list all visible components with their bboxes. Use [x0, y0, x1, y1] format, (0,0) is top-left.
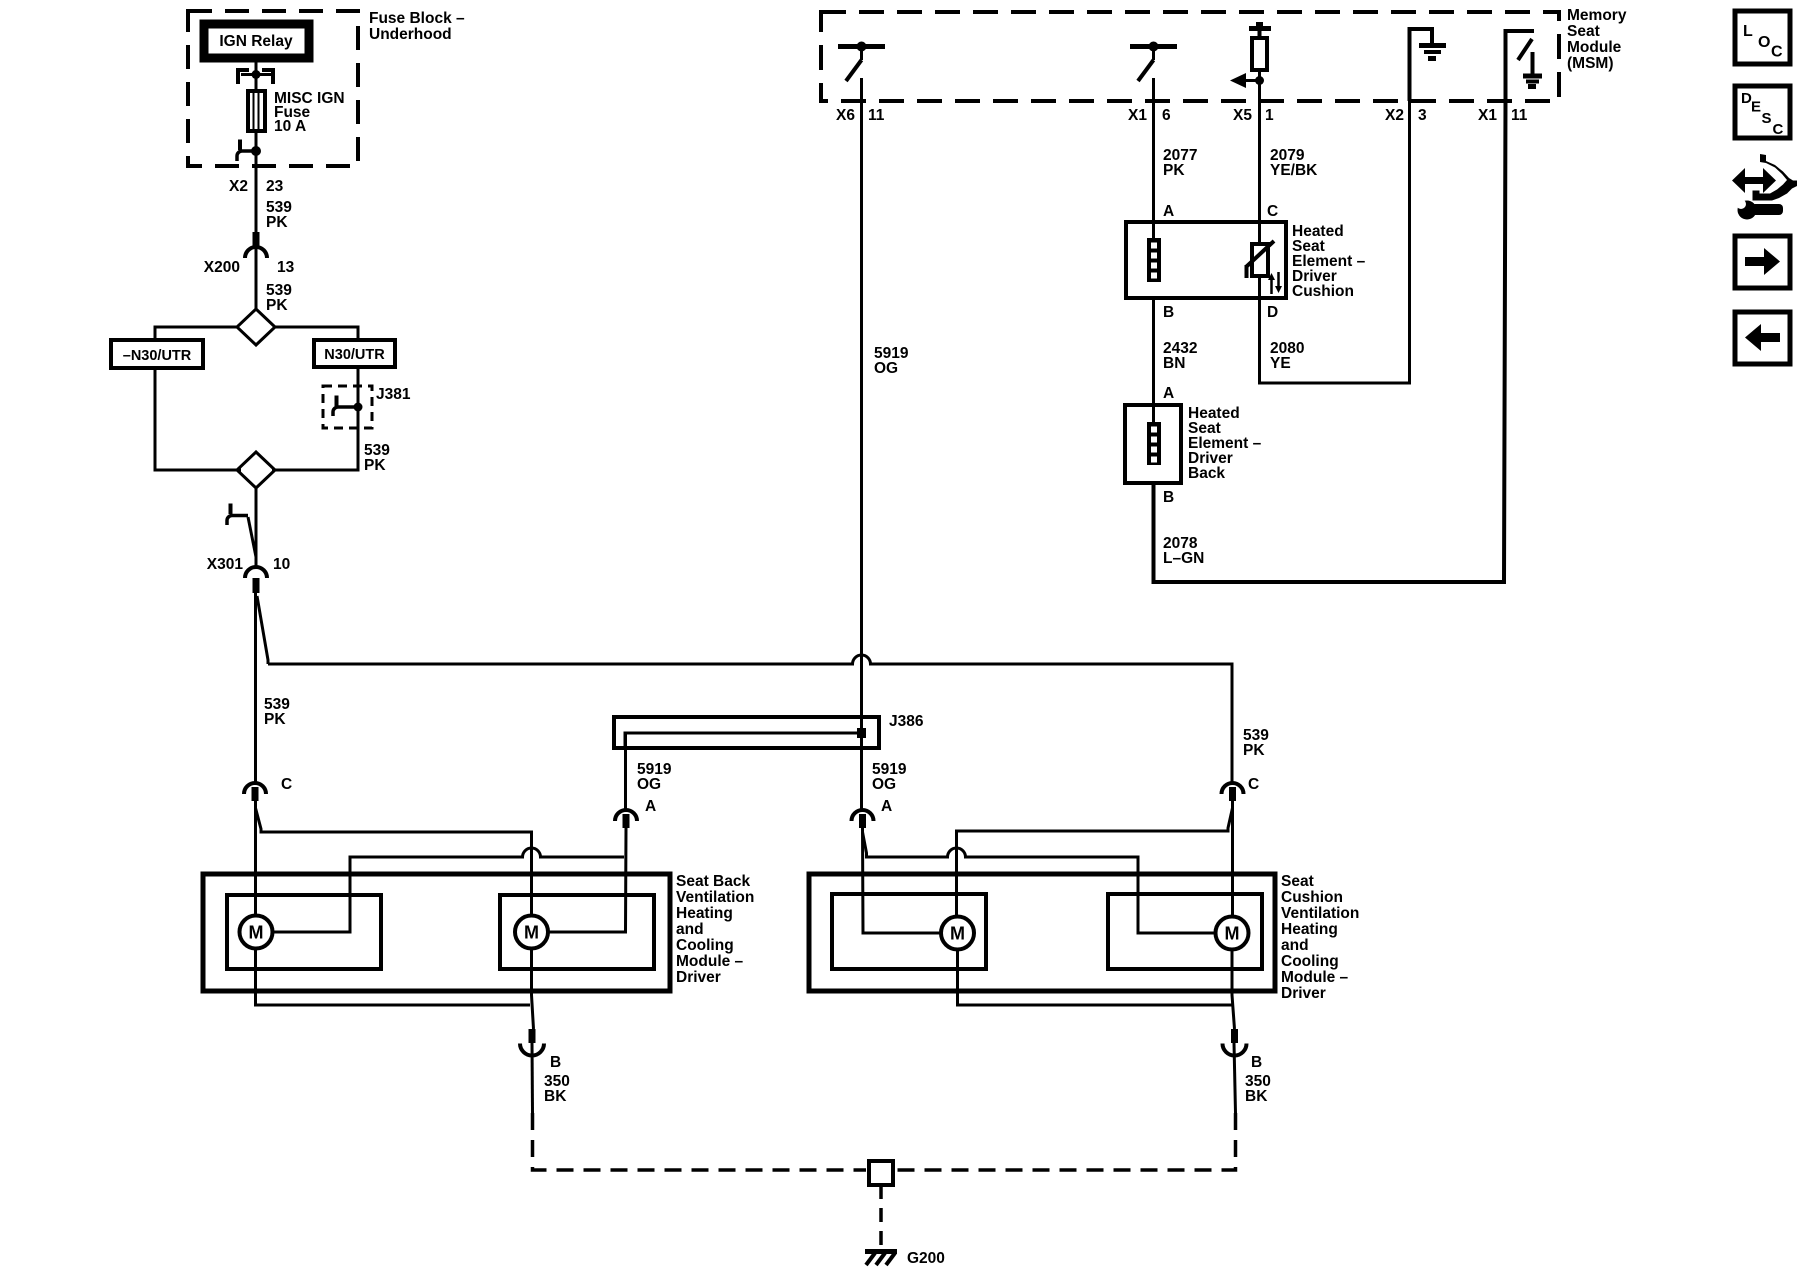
motor M2 left module: [515, 916, 548, 949]
wire N30/UTR down through J381 to splice 2: [272, 367, 358, 470]
svg-text:J386: J386: [889, 713, 924, 730]
switch at MSM X6 output: [838, 44, 885, 49]
svg-text:Cooling: Cooling: [676, 937, 734, 954]
svg-text:IGN Relay: IGN Relay: [219, 33, 293, 50]
right module inner box 1: [832, 894, 986, 969]
wire relay to fuse: [255, 58, 258, 92]
ground symbol inside MSM at X2: [1410, 29, 1433, 101]
svg-text:OG: OG: [637, 776, 661, 793]
wire C branch to M2 top: [256, 808, 532, 915]
svg-text:PK: PK: [266, 297, 288, 314]
sidebar next arrow button: [1735, 236, 1790, 288]
wire 5919 OG left branch J386 to left module A: [624, 733, 627, 812]
splice diamond 1: [237, 309, 275, 345]
svg-text:1: 1: [1265, 107, 1274, 124]
svg-text:E: E: [1751, 99, 1761, 116]
wire 350 BK left module B to ground splice: [531, 1043, 535, 1113]
svg-text:Ventilation: Ventilation: [1281, 905, 1359, 922]
wire 2079 YE/BK from X5 to element C: [1258, 101, 1261, 246]
arrow pointing left at X5 driver: [1255, 76, 1264, 85]
wire A branch to M2 left with hop: [863, 832, 1216, 933]
svg-text:and: and: [1281, 937, 1309, 954]
left module inner box 2: [500, 895, 654, 969]
svg-text:PK: PK: [1243, 742, 1265, 759]
svg-text:BK: BK: [1245, 1088, 1268, 1105]
svg-text:Underhood: Underhood: [369, 26, 452, 43]
svg-text:23: 23: [266, 178, 284, 195]
wire 539 PK X200 to splice: [255, 249, 258, 310]
wire A down to M1 left: [863, 828, 942, 933]
connector X1 pin 11 labels: [1478, 107, 1528, 124]
svg-text:B: B: [1163, 489, 1174, 506]
connector X2 pin 23 labels: [229, 178, 284, 195]
svg-text:PK: PK: [264, 711, 286, 728]
svg-text:X5: X5: [1233, 107, 1252, 124]
svg-text:Back: Back: [1188, 465, 1225, 482]
svg-text:M: M: [950, 924, 965, 944]
splice diamond 2: [237, 452, 275, 488]
svg-text:X1: X1: [1128, 107, 1147, 124]
current path hook symbol at junction: [237, 151, 252, 161]
svg-text:C: C: [1267, 203, 1278, 220]
wire element B pin labels: [1163, 304, 1278, 321]
svg-text:10 A: 10 A: [274, 118, 306, 135]
ground G200 symbol: [865, 1249, 897, 1254]
svg-text:C: C: [1771, 44, 1783, 61]
svg-text:S: S: [1762, 110, 1772, 127]
svg-text:11: 11: [1511, 107, 1528, 124]
dashed wire splice to G200: [879, 1185, 883, 1248]
svg-text:C: C: [1248, 776, 1259, 793]
svg-text:B: B: [1251, 1054, 1262, 1071]
svg-text:Module –: Module –: [1281, 969, 1349, 986]
switch at MSM X1-6 output: [1130, 44, 1177, 49]
svg-text:N30/UTR: N30/UTR: [324, 347, 385, 363]
wire 350 BK right module B to ground splice: [1234, 1043, 1236, 1113]
svg-text:3: 3: [1418, 107, 1427, 124]
svg-text:C: C: [281, 776, 292, 793]
svg-text:X2: X2: [229, 178, 248, 195]
hook symbol at X301: [227, 516, 248, 526]
label Fuse Block - Underhood: [369, 10, 465, 43]
sidebar LOC button: [1735, 11, 1790, 64]
right module inner box 2: [1108, 894, 1262, 969]
wire -N30/UTR down to splice 2: [155, 368, 241, 470]
wire M1 right to A with hop: [273, 848, 625, 932]
heated seat element - driver back box: [1125, 405, 1181, 483]
svg-text:L: L: [1743, 23, 1753, 40]
sidebar DESC button: [1735, 86, 1790, 138]
svg-text:OG: OG: [872, 776, 896, 793]
in-line connector X200 pin 13: [253, 232, 260, 247]
wire 539 PK X301 branch to bus: [257, 596, 268, 664]
svg-text:M: M: [524, 923, 539, 943]
connector X2 pin 3 labels: [1385, 107, 1427, 124]
svg-text:B: B: [1163, 304, 1174, 321]
svg-text:Module: Module: [1567, 39, 1622, 56]
wrench part of icon: [1738, 201, 1757, 220]
wire to -N30/UTR: [155, 327, 237, 340]
wire C to M2 top: [1231, 801, 1234, 916]
fuse MISC IGN 10A: [248, 91, 265, 131]
svg-text:M: M: [1225, 924, 1240, 944]
relay output terminal symbol: [238, 70, 249, 84]
switch to ground inside MSM at X1-11: [1506, 31, 1535, 101]
svg-text:D: D: [1267, 304, 1278, 321]
heater element symbol back: [1147, 422, 1161, 465]
svg-text:PK: PK: [266, 214, 288, 231]
wire 539 PK bus to right module C with hop: [268, 655, 1232, 784]
svg-text:PK: PK: [1163, 162, 1185, 179]
in-line connector X301 pin 10: [245, 567, 267, 578]
connector C left module: [244, 783, 266, 794]
sidebar back arrow button: [1735, 312, 1790, 364]
wire 2432 BN element cushion B to element back A: [1152, 298, 1155, 424]
svg-text:Heating: Heating: [676, 905, 733, 922]
label 539 PK above right module C: [1243, 727, 1269, 759]
heated seat element - driver cushion box: [1126, 222, 1286, 298]
wire label 539 PK at J381: [364, 442, 390, 474]
J386 internal bus bar: [625, 733, 861, 747]
svg-text:Cushion: Cushion: [1281, 889, 1343, 906]
connector A left module: [615, 810, 637, 821]
svg-text:A: A: [1163, 385, 1174, 402]
label B below element back: [1163, 489, 1174, 506]
seat cushion ventilation module outer box: [809, 874, 1275, 991]
svg-text:YE/BK: YE/BK: [1270, 162, 1318, 179]
svg-text:BK: BK: [544, 1088, 567, 1105]
wire 5919 OG from X6 down through J386 to right module A: [860, 78, 863, 812]
wire 2080 YE element D to MSM X2-3: [1260, 101, 1410, 383]
fuse block - underhood dashed box: [188, 11, 358, 166]
svg-text:Ventilation: Ventilation: [676, 889, 754, 906]
svg-text:X2: X2: [1385, 107, 1404, 124]
motor M1 left module: [240, 916, 273, 949]
hook symbol inside J381: [333, 407, 356, 416]
wire thermistor to pin D: [1258, 276, 1261, 298]
svg-text:Seat Back: Seat Back: [676, 873, 750, 890]
svg-text:Heating: Heating: [1281, 921, 1338, 938]
wire C branch to M1 top: [957, 808, 1233, 916]
motor M2 right module: [1216, 917, 1249, 950]
svg-text:Cooling: Cooling: [1281, 953, 1339, 970]
svg-text:G200: G200: [907, 1250, 945, 1267]
svg-text:C: C: [1773, 121, 1784, 138]
svg-text:Driver: Driver: [676, 969, 721, 986]
junction dot in fuse block: [251, 146, 261, 156]
left module inner box 1: [227, 895, 381, 969]
sidebar diagram navigation icon: [1753, 154, 1798, 201]
wire M1 bottom to B bus: [256, 949, 531, 1006]
svg-text:–N30/UTR: –N30/UTR: [123, 348, 192, 364]
wire fuse to junction: [255, 131, 258, 167]
connector B right module: [1223, 1044, 1247, 1056]
wire to N30/UTR: [275, 327, 358, 340]
wire 2078 L-GN element back B to MSM X1-11: [1154, 101, 1506, 582]
heater element symbol cushion: [1147, 238, 1161, 282]
wire C to M1 top: [254, 801, 257, 915]
wire M1 bottom to B bus right module: [958, 950, 1234, 1006]
wire splice 2 to X301: [255, 488, 258, 568]
motor M1 right module: [941, 917, 974, 950]
temperature arrows up/down: [1270, 279, 1273, 294]
node -N30/UTR box: [111, 340, 203, 368]
svg-text:M: M: [249, 923, 264, 943]
svg-text:Memory: Memory: [1567, 7, 1627, 24]
svg-text:Module –: Module –: [676, 953, 744, 970]
svg-text:B: B: [550, 1054, 561, 1071]
seat back ventilation module outer box: [203, 874, 670, 991]
label Memory Seat Module (MSM): [1567, 7, 1627, 72]
svg-text:11: 11: [868, 107, 885, 124]
svg-text:PK: PK: [364, 457, 386, 474]
svg-text:Seat: Seat: [1567, 23, 1600, 40]
memory seat module dashed box: [821, 12, 1559, 101]
label 539 PK above left module C: [264, 696, 290, 728]
labels for middle 5919 OG branch: [872, 761, 907, 793]
svg-text:10: 10: [273, 556, 290, 573]
thermistor symbol cushion: [1252, 244, 1268, 276]
svg-text:X200: X200: [204, 259, 240, 276]
ground splice square: [869, 1161, 893, 1185]
connector X1 pin 6 labels: [1128, 107, 1171, 124]
svg-text:X1: X1: [1478, 107, 1497, 124]
connector X6 pin 11 labels: [836, 107, 885, 124]
svg-text:Seat: Seat: [1281, 873, 1314, 890]
svg-text:and: and: [676, 921, 704, 938]
svg-text:A: A: [881, 798, 892, 815]
wire A down to M2 right: [548, 828, 626, 932]
connector J381 dashed box: [323, 386, 372, 428]
svg-text:Cushion: Cushion: [1292, 283, 1354, 300]
connector B left module: [520, 1044, 544, 1056]
svg-text:A: A: [645, 798, 656, 815]
svg-text:X6: X6: [836, 107, 855, 124]
wire 539 PK X301 down to left module C: [254, 593, 257, 784]
svg-text:OG: OG: [874, 360, 898, 377]
svg-text:J381: J381: [376, 386, 411, 403]
splice pack J386 box: [614, 717, 879, 748]
connector C right module: [1222, 783, 1244, 794]
relay IGN Relay box: [204, 24, 309, 58]
svg-text:BN: BN: [1163, 355, 1185, 372]
svg-text:Driver: Driver: [1281, 985, 1326, 1002]
driver output with resistor at MSM X5: [1256, 22, 1263, 26]
svg-text:(MSM): (MSM): [1567, 55, 1614, 72]
svg-text:L–GN: L–GN: [1163, 550, 1204, 567]
node N30/UTR box: [314, 340, 395, 367]
wire 2077 PK from X1-6 to element A: [1152, 78, 1155, 240]
svg-text:YE: YE: [1270, 355, 1291, 372]
wire M2 bottom to B right module: [1232, 950, 1235, 1030]
svg-text:X301: X301: [207, 556, 244, 573]
svg-text:O: O: [1758, 34, 1770, 51]
connector X5 pin 1 labels: [1233, 107, 1274, 124]
wire 539 PK fuse block to X200: [255, 167, 258, 233]
svg-text:13: 13: [277, 259, 295, 276]
wire M2 bottom to B: [532, 949, 534, 1030]
svg-text:Fuse Block –: Fuse Block –: [369, 10, 465, 27]
svg-text:6: 6: [1162, 107, 1171, 124]
svg-text:A: A: [1163, 203, 1174, 220]
connector A right module: [852, 810, 874, 821]
